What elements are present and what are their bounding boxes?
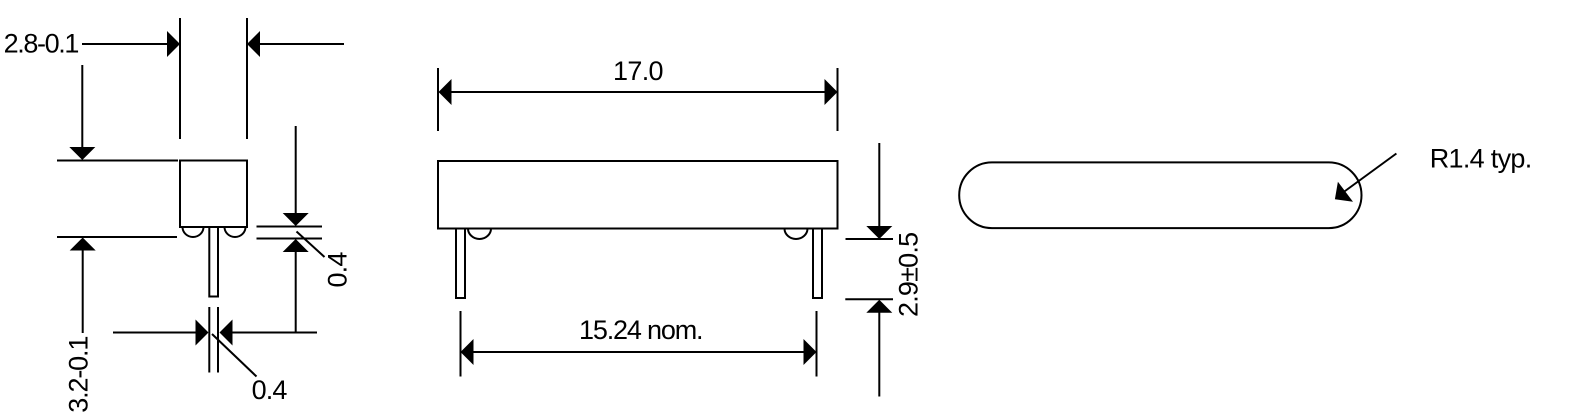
bottom dim line left (113, 332, 197, 334)
0.4 vert upper (295, 126, 297, 214)
0.4 line A (257, 226, 323, 228)
leader R1.4 (1343, 154, 1396, 193)
arrow down at top line (69, 147, 95, 160)
left bump (183, 227, 204, 237)
arrow left lead width (220, 320, 233, 346)
ext 15.24 left (460, 311, 462, 377)
left lead (456, 229, 465, 299)
lead ext right (217, 307, 219, 373)
arrow up 2.9 (866, 300, 892, 313)
svg-text:0.4: 0.4 (323, 252, 353, 288)
ext 17 right (837, 68, 839, 131)
racetrack (959, 162, 1361, 228)
arrow up 0.4 (283, 239, 309, 252)
leader down to top line (81, 65, 83, 148)
diagonal leader 0.4 (297, 232, 325, 258)
body rect (438, 161, 838, 229)
ext 15.24 right (816, 311, 818, 377)
svg-text:0.4: 0.4 (252, 375, 288, 405)
2.9 vert lower (878, 312, 880, 396)
2.9 line bottom (845, 298, 893, 300)
arrow down 0.4 (283, 213, 309, 226)
arrow right 17.0 (825, 79, 838, 105)
svg-text:2.8-0.1: 2.8-0.1 (4, 28, 79, 58)
right bump (225, 227, 246, 237)
svg-text:3.2-0.1: 3.2-0.1 (64, 337, 94, 413)
seating line (57, 236, 177, 238)
arrow left at 2.8 right (247, 31, 260, 57)
arrow left 15.24 (461, 339, 474, 365)
extension line right (246, 18, 248, 139)
right lead (813, 229, 822, 299)
dim line 2.8 right (259, 43, 344, 45)
svg-text:15.24 nom.: 15.24 nom. (579, 315, 702, 345)
2.9 line top (846, 238, 894, 240)
arrow right lead width (196, 320, 209, 346)
extension line left (179, 18, 181, 139)
svg-text:17.0: 17.0 (613, 56, 663, 86)
arrow leader R1.4 (1335, 182, 1353, 202)
0.4 line B (257, 238, 323, 240)
lead ext left (208, 307, 210, 373)
arrow down 2.9 (866, 226, 892, 239)
svg-text:2.9±0.5: 2.9±0.5 (894, 233, 924, 317)
bottom dim line right (233, 332, 318, 334)
arrow right at 2.8 left (167, 31, 180, 57)
diagonal leader bottom (212, 334, 257, 377)
top line (57, 160, 178, 162)
0.4 vert lower (295, 251, 297, 333)
arrow right 15.24 (804, 339, 817, 365)
dim line 15.24 (473, 351, 804, 353)
ext 17 left (437, 68, 439, 131)
body rect (180, 161, 247, 228)
2.9 vert upper (878, 143, 880, 227)
leader below seating (82, 250, 84, 334)
left bump (468, 229, 491, 240)
lead (209, 227, 218, 297)
right bump (785, 229, 808, 240)
svg-text:R1.4 typ.: R1.4 typ. (1430, 144, 1532, 174)
arrow left 17.0 (439, 79, 452, 105)
dim line 2.8 left (82, 43, 168, 45)
arrow up at seating (70, 238, 96, 251)
dim line 17 (451, 91, 825, 93)
